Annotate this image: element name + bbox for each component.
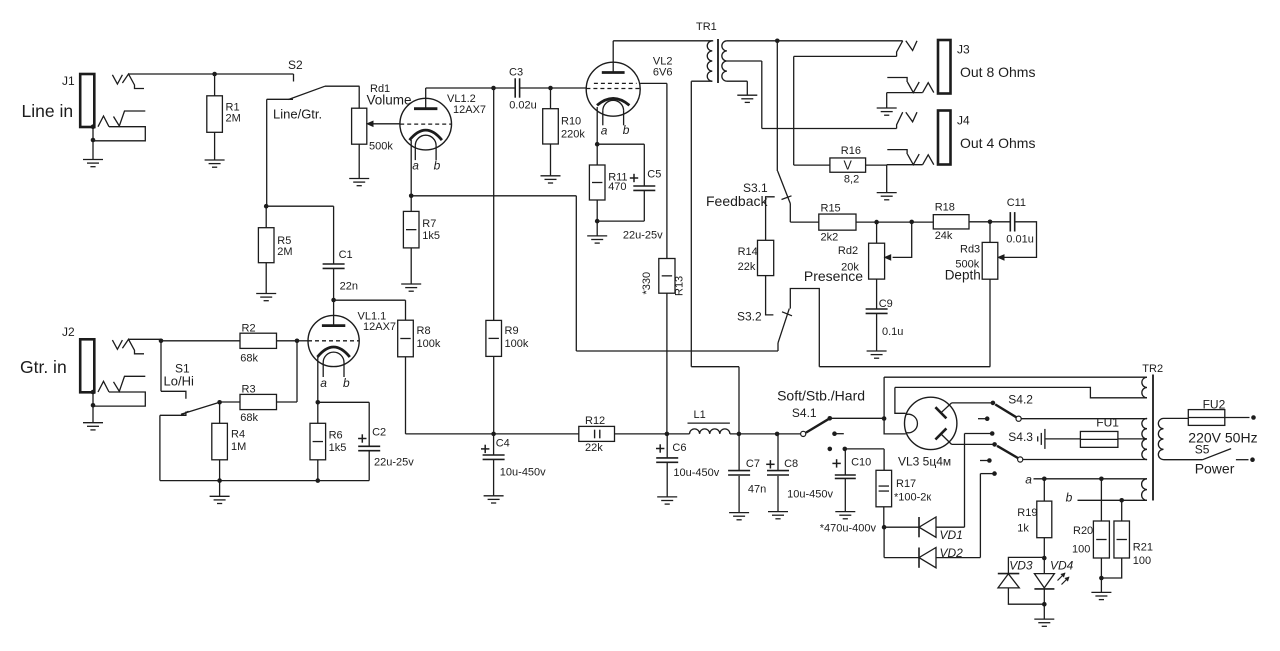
svg-text:10u-450v: 10u-450v: [500, 467, 546, 479]
svg-text:S3.2: S3.2: [737, 310, 762, 324]
svg-text:22n: 22n: [340, 281, 358, 293]
svg-text:6V6: 6V6: [653, 67, 673, 79]
svg-text:R13: R13: [674, 276, 686, 296]
svg-text:R20: R20: [1073, 525, 1093, 537]
svg-text:C1: C1: [339, 249, 353, 261]
svg-text:S4.1: S4.1: [792, 406, 817, 420]
svg-text:V: V: [844, 158, 853, 172]
svg-text:68k: 68k: [240, 412, 258, 424]
svg-text:Presence: Presence: [804, 268, 863, 284]
svg-text:R2: R2: [242, 323, 256, 335]
svg-text:100k: 100k: [417, 338, 441, 350]
svg-text:1M: 1M: [231, 441, 246, 453]
svg-text:2k2: 2k2: [821, 232, 839, 244]
svg-text:Line in: Line in: [22, 101, 74, 121]
svg-text:0.1u: 0.1u: [882, 326, 903, 338]
svg-text:J4: J4: [957, 114, 970, 128]
svg-text:2M: 2M: [277, 246, 292, 258]
svg-text:a: a: [601, 123, 608, 137]
svg-text:b: b: [434, 159, 441, 173]
svg-text:b: b: [1066, 491, 1073, 505]
svg-text:Line/Gtr.: Line/Gtr.: [273, 107, 322, 122]
svg-text:Lo/Hi: Lo/Hi: [164, 374, 194, 389]
svg-text:C7: C7: [746, 458, 760, 470]
svg-text:*100-2к: *100-2к: [894, 492, 931, 504]
svg-text:VL3 5ц4м: VL3 5ц4м: [898, 455, 951, 469]
svg-text:R3: R3: [242, 384, 256, 396]
svg-text:100: 100: [1072, 544, 1090, 556]
svg-text:Depth: Depth: [945, 268, 981, 283]
svg-text:47n: 47n: [748, 484, 766, 496]
svg-text:Power: Power: [1195, 461, 1235, 477]
svg-text:J3: J3: [957, 43, 970, 57]
svg-text:Soft/Stb./Hard: Soft/Stb./Hard: [777, 388, 865, 404]
svg-text:Gtr. in: Gtr. in: [20, 357, 67, 377]
svg-text:b: b: [623, 123, 630, 137]
svg-text:VD1: VD1: [940, 528, 963, 542]
svg-text:*470u-400v: *470u-400v: [820, 523, 877, 535]
svg-text:1k: 1k: [1017, 523, 1029, 535]
svg-text:S4.2: S4.2: [1008, 393, 1033, 407]
svg-text:220k: 220k: [561, 129, 585, 141]
svg-text:FU2: FU2: [1203, 398, 1226, 412]
svg-text:Feedback: Feedback: [706, 193, 768, 209]
svg-text:C10: C10: [851, 457, 871, 469]
svg-text:TR2: TR2: [1142, 363, 1163, 375]
svg-text:R17: R17: [896, 478, 916, 490]
svg-text:R9: R9: [505, 325, 519, 337]
svg-text:a: a: [320, 376, 327, 390]
svg-text:22u-25v: 22u-25v: [374, 457, 414, 469]
svg-text:0.01u: 0.01u: [1006, 234, 1034, 246]
svg-text:R4: R4: [231, 429, 245, 441]
svg-text:J1: J1: [62, 74, 75, 88]
svg-text:10u-450v: 10u-450v: [673, 467, 719, 479]
svg-text:S5: S5: [1195, 443, 1210, 457]
svg-text:R21: R21: [1133, 542, 1153, 554]
svg-text:0.02u: 0.02u: [509, 100, 537, 112]
svg-text:C4: C4: [496, 438, 510, 450]
svg-text:2M: 2M: [226, 113, 241, 125]
svg-text:R18: R18: [935, 202, 955, 214]
svg-text:24k: 24k: [935, 230, 953, 242]
svg-text:FU1: FU1: [1096, 416, 1119, 430]
svg-text:100: 100: [1133, 555, 1151, 567]
svg-text:*330: *330: [641, 272, 653, 295]
svg-text:1k5: 1k5: [422, 230, 440, 242]
svg-text:VD4: VD4: [1050, 559, 1074, 573]
svg-text:C3: C3: [509, 67, 523, 79]
svg-text:C2: C2: [372, 427, 386, 439]
svg-text:b: b: [343, 376, 350, 390]
svg-text:R15: R15: [821, 203, 841, 215]
svg-text:a: a: [1025, 473, 1032, 487]
svg-text:C6: C6: [672, 442, 686, 454]
svg-text:R12: R12: [585, 415, 605, 427]
svg-text:C11: C11: [1007, 197, 1026, 209]
svg-text:S4.3: S4.3: [1008, 430, 1033, 444]
svg-text:C9: C9: [879, 298, 893, 310]
svg-text:12AX7: 12AX7: [363, 321, 396, 333]
svg-text:VD3: VD3: [1009, 559, 1033, 573]
svg-text:10u-450v: 10u-450v: [787, 489, 833, 501]
svg-text:22k: 22k: [738, 261, 756, 273]
svg-text:R14: R14: [738, 246, 758, 258]
svg-text:R19: R19: [1017, 507, 1037, 519]
svg-text:8,2: 8,2: [844, 174, 859, 186]
svg-text:L1: L1: [694, 409, 706, 421]
svg-text:22k: 22k: [585, 442, 603, 454]
svg-text:Rd3: Rd3: [960, 244, 980, 256]
svg-text:C5: C5: [647, 169, 661, 181]
svg-text:R8: R8: [417, 325, 431, 337]
svg-text:R7: R7: [422, 218, 436, 230]
svg-text:Rd2: Rd2: [838, 245, 858, 257]
svg-text:12AX7: 12AX7: [453, 104, 486, 116]
svg-text:Out 4 Ohms: Out 4 Ohms: [960, 135, 1035, 151]
svg-text:500k: 500k: [369, 141, 393, 153]
svg-text:68k: 68k: [240, 353, 258, 365]
svg-text:VD2: VD2: [940, 546, 964, 560]
svg-text:470: 470: [608, 181, 626, 193]
svg-text:R6: R6: [329, 430, 343, 442]
svg-text:TR1: TR1: [696, 21, 717, 33]
svg-text:Volume: Volume: [367, 93, 412, 108]
svg-text:J2: J2: [62, 325, 75, 339]
svg-text:100k: 100k: [505, 338, 529, 350]
svg-text:C8: C8: [784, 458, 798, 470]
svg-text:Out 8 Ohms: Out 8 Ohms: [960, 64, 1035, 80]
svg-text:R10: R10: [561, 116, 581, 128]
svg-text:S2: S2: [288, 58, 303, 72]
svg-text:22u-25v: 22u-25v: [623, 230, 663, 242]
svg-text:R16: R16: [841, 145, 861, 157]
svg-text:a: a: [412, 159, 419, 173]
svg-text:1k5: 1k5: [329, 442, 347, 454]
